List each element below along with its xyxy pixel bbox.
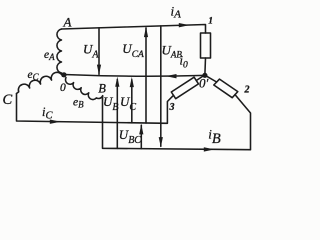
svg-text:0′: 0′	[199, 76, 209, 91]
svg-text:1: 1	[208, 17, 213, 27]
svg-text:3: 3	[169, 102, 175, 113]
svg-text:2: 2	[244, 85, 250, 96]
svg-text:A: A	[63, 15, 72, 30]
svg-text:0: 0	[60, 82, 66, 94]
svg-text:C: C	[3, 92, 13, 108]
